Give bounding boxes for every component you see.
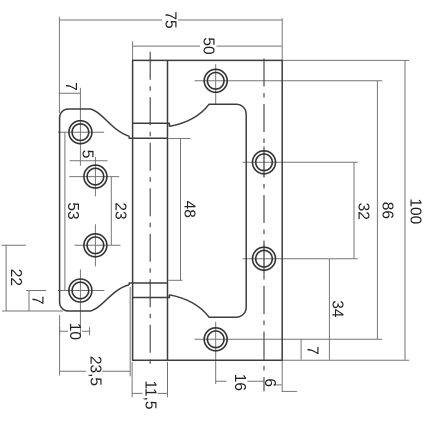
svg-text:86: 86 bbox=[379, 202, 396, 219]
svg-text:34: 34 bbox=[329, 300, 346, 318]
ext hole2 vertical bbox=[94, 157, 96, 197]
knuckle fold line bbox=[167, 60, 169, 360]
crosshair hole4 bbox=[58, 290, 104, 292]
svg-text:5: 5 bbox=[79, 150, 96, 159]
ext bottom edge left bbox=[2, 310, 63, 312]
crosshair hole1 bbox=[58, 131, 104, 133]
ext bottom hole horizontal (to 86) bbox=[195, 338, 383, 340]
ext 22 top bbox=[2, 244, 27, 246]
ext hole3 vertical bbox=[94, 224, 96, 266]
ext 11,5 left vertical bbox=[131, 362, 133, 397]
hole 4 small leaf bbox=[69, 279, 92, 302]
ext hole4 vertical bbox=[79, 269, 81, 335]
dim 53 line bbox=[64, 132, 66, 290]
solid centerline segments through right holes bbox=[263, 146, 265, 177]
dim 23 line bbox=[110, 177, 112, 246]
ext hole1 vertical bbox=[79, 88, 81, 166]
dim 5 line bbox=[70, 160, 108, 162]
tick 48 top bbox=[169, 138, 191, 140]
dim 50 line bbox=[133, 45, 283, 47]
large leaf outer rectangle bbox=[133, 60, 283, 360]
hole 3 small leaf bbox=[84, 234, 107, 257]
ext 11,5 right vertical bbox=[167, 362, 169, 397]
dim 100 line bbox=[404, 60, 406, 360]
dim 23,5 line bbox=[60, 370, 131, 372]
svg-text:48: 48 bbox=[181, 201, 198, 218]
ext right edge below plate bbox=[281, 360, 283, 391]
svg-text:16: 16 bbox=[231, 374, 248, 391]
dim 10 line bbox=[60, 330, 90, 332]
tick 10 left bbox=[59, 327, 61, 335]
hole 2 small leaf bbox=[84, 165, 107, 188]
tick 48 bottom bbox=[169, 279, 183, 281]
dim 75 line bbox=[59, 19, 282, 21]
dim 48 line bbox=[180, 139, 182, 281]
tick 10 right bbox=[89, 327, 91, 335]
crosshair+ext bottom hole vertical bbox=[215, 322, 217, 384]
ext top edge right (to 100) bbox=[282, 59, 409, 61]
svg-text:11,5: 11,5 bbox=[141, 380, 158, 409]
ext 7 left top bbox=[26, 290, 46, 292]
crosshair hole3 bbox=[75, 244, 121, 246]
svg-text:100: 100 bbox=[406, 198, 423, 224]
ext left vertical (75 left end / leaf edge ext) bbox=[58, 17, 60, 113]
hole top large leaf bbox=[204, 69, 227, 92]
bottom band bbox=[129, 283, 169, 298]
dim 22 line bbox=[5, 245, 7, 311]
pivot axis centerline bbox=[149, 52, 151, 368]
ext right hole bottom horizontal (to 32) bbox=[243, 258, 358, 260]
dim 11,5 line bbox=[132, 392, 167, 394]
ext top hole horizontal (to 86) bbox=[195, 80, 383, 82]
svg-text:75: 75 bbox=[162, 11, 179, 28]
dim 32 line bbox=[353, 162, 355, 258]
ext 23,5/10 left vertical bbox=[59, 315, 61, 376]
top band bbox=[129, 123, 169, 138]
svg-text:23,5: 23,5 bbox=[86, 356, 103, 386]
svg-text:50: 50 bbox=[200, 37, 217, 55]
ext right hole top horizontal (to 32) bbox=[243, 161, 358, 163]
svg-text:7: 7 bbox=[303, 346, 320, 355]
small leaf outline bbox=[60, 109, 130, 311]
svg-text:7: 7 bbox=[62, 82, 79, 91]
svg-text:23: 23 bbox=[112, 202, 129, 219]
crosshair hole2 bbox=[69, 176, 119, 178]
ext right edge above plate bbox=[281, 18, 283, 60]
hole right bottom large leaf bbox=[253, 247, 276, 270]
crosshair top hole vertical bbox=[215, 64, 217, 104]
cutout tongue outline bbox=[169, 104, 246, 317]
ext bottom edge right (to 100) bbox=[282, 359, 409, 361]
right holes centerline bbox=[263, 52, 265, 391]
hole 1 small leaf bbox=[69, 121, 92, 144]
dim 16 line bbox=[216, 380, 264, 382]
svg-text:53: 53 bbox=[64, 202, 81, 219]
dim 86 line bbox=[376, 81, 378, 340]
ext 23,5 right vertical bbox=[129, 287, 131, 376]
svg-text:32: 32 bbox=[355, 203, 372, 220]
tick 50 left (above plate) bbox=[132, 41, 134, 60]
hole bottom large leaf bbox=[204, 328, 227, 351]
svg-text:22: 22 bbox=[7, 269, 24, 286]
svg-text:6: 6 bbox=[261, 378, 278, 387]
svg-text:7: 7 bbox=[29, 296, 46, 305]
dim 6 line bbox=[264, 384, 282, 386]
hole right top large leaf bbox=[253, 151, 276, 174]
dim 7 left line bbox=[28, 291, 30, 312]
svg-text:10: 10 bbox=[66, 323, 83, 341]
dim 34 line bbox=[328, 259, 330, 360]
dim 7 bottom-right line bbox=[300, 339, 302, 360]
stray tick bottom right bbox=[282, 390, 297, 392]
dim 7 top line bbox=[59, 92, 81, 94]
